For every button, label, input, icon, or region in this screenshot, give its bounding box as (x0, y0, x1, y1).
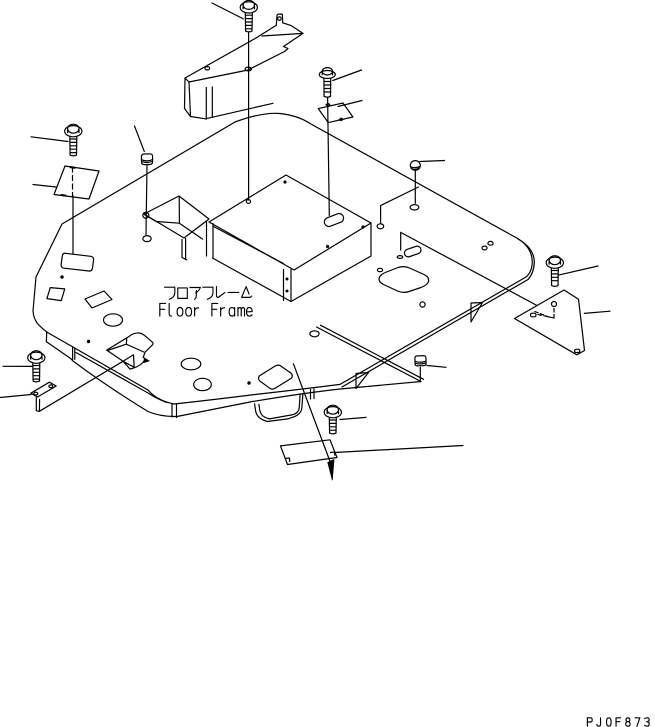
hole: quad (85, 291, 112, 308)
plug P2 (415, 356, 426, 366)
frame skirt left edge (45, 332, 47, 341)
bolt B3 (319, 68, 335, 98)
leader to bracket (0, 395, 31, 398)
landing ellipse on box (B1) (246, 200, 250, 204)
bolt B4 (410, 161, 420, 171)
plate for B2 (54, 166, 99, 199)
leader to B6 (3, 365, 32, 367)
scoop recess (107, 333, 153, 369)
bolt B1 (top) (240, 0, 257, 32)
leader to B5 (558, 266, 598, 275)
frame skirt bottom edge (46, 342, 421, 417)
U handle (255, 394, 303, 422)
scoop flange (107, 350, 130, 369)
hole ellipse for P2 (310, 331, 319, 337)
slot hole on box top (323, 212, 345, 228)
box right wall edges (291, 223, 371, 302)
hole: ellipse 3 (194, 378, 212, 390)
leader to B4 (420, 161, 445, 162)
dot bottom (248, 382, 250, 384)
frame plate thickness line (76, 353, 167, 403)
box wall inner seam (214, 227, 284, 264)
rib on bottom-right edge (471, 303, 483, 323)
cover fold line (262, 33, 303, 36)
long leader L3 (bracket) with hollow arrow (39, 361, 123, 411)
scoop inner walls (108, 338, 144, 352)
tray inner walls (145, 197, 203, 240)
hole: small circle nearby (377, 268, 382, 271)
leader to plate B2 (33, 185, 56, 188)
leader to P2 (427, 366, 446, 368)
rib on bottom-right edge 2 (356, 373, 369, 389)
bolt B6 (bottom left) (28, 351, 45, 382)
long steep leader with arrow (bottom plate) (293, 364, 331, 464)
dot left-low (87, 340, 89, 342)
leader to B7 (340, 417, 366, 419)
top small plate (318, 103, 353, 123)
B2 centerline (72, 196, 74, 254)
bolt B7 (bottom) (324, 405, 341, 434)
arrow head L3 (hollow) (123, 355, 134, 367)
tray opening (144, 196, 209, 238)
leader to bottom plate (335, 446, 464, 453)
leader to B2 (31, 137, 68, 142)
skirt rib at corner (73, 347, 75, 360)
rib on bottom edge (x=310) (311, 389, 315, 399)
bolt B2 (left) (65, 124, 82, 156)
hole: ellipse 2 (181, 358, 201, 370)
tiny ellipse pair near right corner (482, 246, 487, 250)
bracket bottom-left (31, 382, 56, 411)
cover front bottom edge (191, 103, 274, 119)
cover end flange (206, 87, 212, 119)
frame thickness line right (342, 239, 534, 387)
box top face (209, 175, 371, 270)
leader to top plate (338, 101, 362, 107)
scoop hook arrow tip (144, 358, 149, 362)
hole: rounded rect big left (61, 253, 94, 271)
cover left end cap (185, 78, 191, 117)
tray corner hole (143, 212, 149, 218)
leader to B1 (212, 3, 243, 19)
dot left (61, 276, 63, 278)
leader to P1 (135, 126, 145, 152)
bolt B5 (right) (546, 256, 563, 287)
rail double line D2 (317, 325, 424, 381)
leader to triangle plate (584, 311, 610, 313)
B1 centerline (248, 32, 250, 200)
tray recess (143, 196, 209, 260)
hole: ellipse 1 (104, 314, 123, 326)
scoop hook curl (130, 358, 144, 369)
tray hanging flange (182, 239, 187, 260)
box front wall bottom edge (213, 258, 292, 302)
branch line to hole 2 (B4) (381, 187, 419, 224)
top cover (185, 14, 304, 119)
bottom plate (281, 440, 338, 465)
plug centerline (419, 368, 421, 382)
washer on cover (B1 line) (245, 67, 251, 71)
hole: rounded quad bottom (258, 365, 292, 389)
scoop opening (107, 333, 153, 358)
cap P1 (141, 154, 152, 165)
hole: small circle right (420, 302, 425, 307)
B4 centerline (414, 170, 416, 203)
cover tab (276, 14, 282, 25)
part number (587, 718, 649, 726)
hole ellipse 2 (B4) (377, 224, 384, 229)
box rivet dots (286, 278, 288, 280)
box left end flange (207, 222, 214, 258)
rib on bottom edge (x=173) (172, 404, 177, 418)
leader to B3 (333, 70, 362, 81)
washer ellipse (P1) (143, 236, 151, 242)
window flange (401, 232, 537, 305)
console box (207, 175, 372, 302)
P1 centerline (146, 165, 147, 235)
hole: small quad left (47, 288, 65, 301)
cover top hole (205, 67, 210, 70)
washer e1 (B4) (410, 205, 419, 210)
arrow head bottom (328, 460, 334, 481)
slot hole near window (403, 245, 422, 258)
english label (160, 303, 252, 316)
triangle plate (515, 290, 585, 355)
box front corner post (284, 270, 292, 302)
frame outline (33, 113, 534, 416)
hole: big rounded diamond (379, 267, 429, 293)
katakana label (165, 287, 252, 300)
B3 centerline (328, 98, 330, 216)
